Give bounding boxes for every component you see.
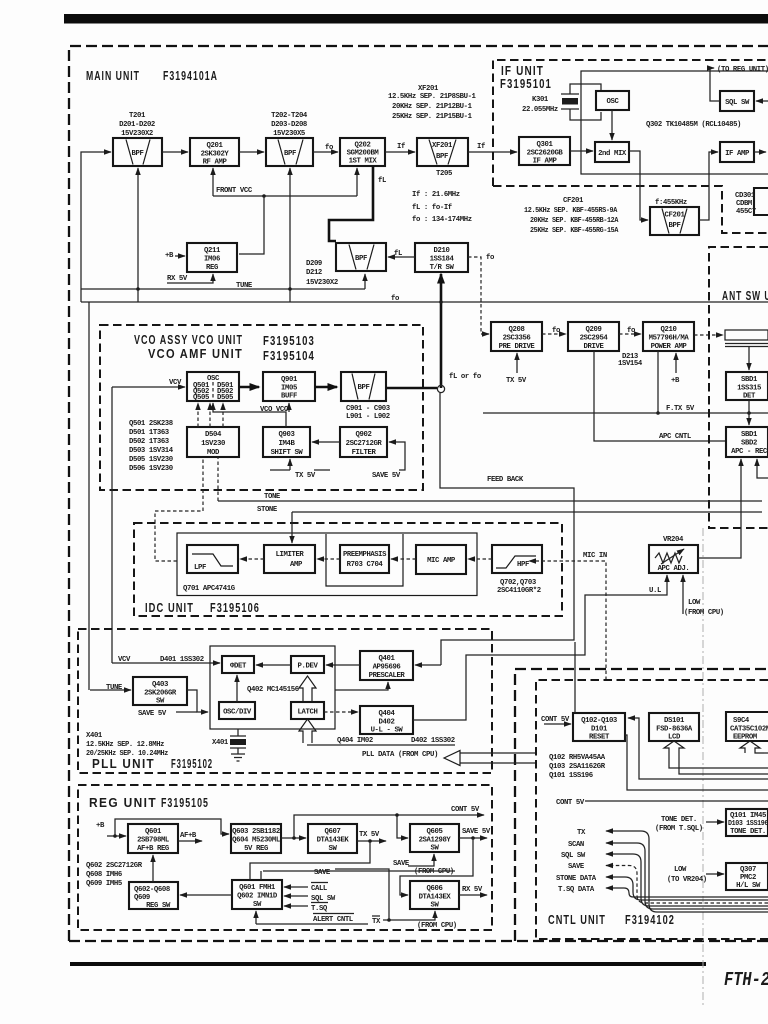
svg-text:25KHz SEP. 21P15BU-1: 25KHz SEP. 21P15BU-1 [392, 113, 473, 121]
svg-text:SAVE: SAVE [393, 860, 410, 868]
LCD DS101 [649, 713, 699, 742]
svg-text:TONE DET.: TONE DET. [730, 828, 766, 836]
crystal K301 [561, 84, 601, 120]
svg-text:FRONT VCC: FRONT VCC [216, 187, 253, 195]
svg-text:BPF: BPF [132, 150, 144, 158]
amplifier IF AMP [720, 142, 754, 162]
modulator D504 [187, 427, 239, 457]
wire VCO node into prescaler [415, 664, 441, 666]
switch REG SW [129, 882, 178, 910]
svg-text:IF AMP: IF AMP [533, 158, 558, 166]
wire CONT 5V rail [294, 815, 484, 838]
svg-text:SW: SW [431, 845, 440, 853]
switch D210 T/R SW [415, 243, 468, 272]
svg-text:2SC2954: 2SC2954 [580, 335, 609, 343]
wire REG SW to Q601 [152, 855, 154, 882]
svg-text:LIMITER: LIMITER [276, 551, 305, 559]
svg-text:If : 21.6MHz: If : 21.6MHz [412, 191, 460, 199]
svg-text:D103 1SS196: D103 1SS196 [728, 820, 768, 828]
svg-text:SW: SW [431, 902, 440, 910]
node VCO output junction circle [437, 385, 444, 392]
regulator Q601 [128, 824, 178, 853]
svg-text:T205: T205 [436, 170, 452, 178]
svg-text:1ST MIX: 1ST MIX [349, 158, 378, 166]
svg-text:LOW: LOW [674, 866, 687, 874]
wire OSC to 2nd MIX [611, 110, 613, 140]
wire TUNE to D209 BPF varactors [364, 274, 366, 289]
svg-text:Q903: Q903 [279, 431, 296, 439]
fold crease dash-dot line [702, 528, 704, 1008]
svg-text:Q102 RH5VA45AA: Q102 RH5VA45AA [549, 754, 606, 762]
wire LATCH to U-L SW dashed [324, 711, 358, 713]
wire Q208 to Q209 dashed, node fo [542, 333, 566, 335]
wire CONT5V to Q605 [397, 815, 408, 838]
amplifier Q210 POWER AMP [643, 322, 694, 351]
svg-text:IM05: IM05 [281, 385, 297, 393]
wire LPF audio out to MOD dashed [155, 511, 203, 561]
svg-text:BPF: BPF [436, 153, 448, 161]
svg-text:If: If [477, 143, 485, 151]
svg-text:SGM200BM: SGM200BM [347, 150, 380, 158]
svg-text:Q701 APC4741G: Q701 APC4741G [183, 585, 236, 593]
svg-text:Q403: Q403 [152, 681, 169, 689]
svg-text:2SC2712GR: 2SC2712GR [346, 440, 383, 448]
svg-text:TX 5V: TX 5V [506, 377, 527, 385]
svg-text:D402 1SS302: D402 1SS302 [411, 737, 455, 745]
wire HPF to MIC AMP dashed [468, 558, 492, 560]
svg-text:Q603 2SB1182: Q603 2SB1182 [232, 828, 280, 836]
wire TX5V down into SW [250, 841, 370, 880]
svg-text:22.055MHz: 22.055MHz [522, 106, 558, 114]
wire TX-bar to SW box [335, 869, 389, 920]
wire VR204 output [698, 459, 741, 558]
detector SBD1 DET [726, 372, 768, 401]
svg-text:OSC: OSC [607, 98, 620, 106]
svg-text:2SB798ML: 2SB798ML [137, 837, 169, 845]
svg-text:15V230X5: 15V230X5 [273, 130, 305, 138]
svg-text:Q302 TK10485M (RCL10485): Q302 TK10485M (RCL10485) [646, 121, 741, 129]
wire LCD data bus [669, 757, 768, 768]
svg-text:1SS184: 1SS184 [430, 256, 455, 264]
svg-text:ΦDET: ΦDET [230, 663, 247, 671]
svg-text:RX 5V: RX 5V [167, 275, 188, 283]
svg-text:TX 5V: TX 5V [359, 831, 380, 839]
svg-text:T.SQ: T.SQ [311, 905, 328, 913]
amplifier Q209 DRIVE [568, 322, 619, 351]
IC U Q302 TK10485M outline [581, 71, 768, 174]
svg-text:fL or fo: fL or fo [449, 373, 482, 381]
svg-text:PLL UNIT: PLL UNIT [92, 756, 155, 771]
svg-text:X401: X401 [86, 732, 103, 740]
svg-text:1SV230: 1SV230 [201, 440, 225, 448]
svg-text:D210: D210 [434, 247, 450, 255]
REG unit dashed border [78, 785, 492, 930]
svg-text:T201: T201 [129, 112, 146, 120]
svg-text:2nd MIX: 2nd MIX [598, 150, 627, 158]
wire Q201 to BPF T202 [239, 151, 264, 153]
svg-text:AP95696: AP95696 [373, 664, 401, 672]
wire VCV riser down to PLL [111, 387, 113, 663]
svg-text:5V REG: 5V REG [244, 845, 269, 853]
svg-text:If: If [397, 143, 405, 151]
VCO unit dashed border [100, 325, 423, 490]
wire preemphasis to limiter dashed [317, 558, 340, 560]
svg-text:STONE: STONE [257, 506, 278, 514]
svg-text:SBD2: SBD2 [741, 440, 757, 448]
svg-text:OSC/DIV: OSC/DIV [223, 709, 252, 717]
svg-text:SBD1: SBD1 [741, 431, 758, 439]
prescaler Q401 [360, 651, 413, 680]
svg-text:LCD: LCD [668, 734, 681, 742]
svg-text:VR204: VR204 [663, 536, 684, 544]
svg-text:VCO VCC: VCO VCC [260, 406, 289, 414]
wire XF201 to IF unit Q301 [468, 151, 517, 153]
svg-text:fo: fo [391, 295, 400, 303]
svg-text:f:455KHz: f:455KHz [655, 199, 687, 207]
wire SW to REG SW [180, 894, 232, 896]
svg-text:K301: K301 [532, 96, 549, 104]
svg-text:TONE: TONE [264, 493, 281, 501]
wire VCO BPF to output node thick [386, 387, 437, 390]
svg-text:Q901: Q901 [281, 376, 298, 384]
potentiometer VR204 [649, 545, 698, 573]
svg-text:PMC2: PMC2 [740, 874, 756, 882]
wire BUFF to BPF thick [315, 386, 337, 389]
IF UNIT dashed border [493, 60, 768, 186]
svg-text:2SA1298Y: 2SA1298Y [419, 837, 452, 845]
reset circuit Q102 Q103 D101 [573, 713, 625, 742]
svg-text:15V230X2: 15V230X2 [121, 130, 153, 138]
wire fo RX line across page [81, 301, 768, 303]
wire Q202 to XF201, node If [385, 151, 415, 153]
bottom rule [70, 962, 706, 966]
tone detector Q101 D103 [726, 809, 768, 836]
svg-text:MIC IN: MIC IN [583, 552, 607, 560]
svg-text:CF201: CF201 [563, 197, 584, 205]
svg-text:Q211: Q211 [204, 247, 221, 255]
wire TUNE rail [81, 288, 365, 290]
svg-text:Q401: Q401 [379, 655, 396, 663]
svg-text:XF201: XF201 [418, 85, 439, 93]
svg-text:20KHz SEP. KBF-455RB-12A: 20KHz SEP. KBF-455RB-12A [530, 217, 619, 225]
svg-text:H/L SW: H/L SW [736, 882, 761, 890]
svg-text:APC - REC: APC - REC [731, 448, 768, 456]
hollow arrow PLL DATA into LATCH [299, 719, 316, 743]
svg-text:D504: D504 [205, 431, 222, 439]
svg-text:IM06: IM06 [204, 256, 220, 264]
switch SQL SW [720, 91, 754, 111]
svg-text:PRESCALER: PRESCALER [369, 672, 406, 680]
svg-text:LOW: LOW [688, 599, 701, 607]
svg-text:Q208: Q208 [509, 326, 525, 334]
svg-text:D101: D101 [591, 726, 608, 734]
svg-text:Q209: Q209 [586, 326, 602, 334]
switch Q606 [410, 881, 459, 910]
node LOW FROM CPU into VR204 [682, 575, 684, 614]
svg-text:FEED BACK: FEED BACK [487, 476, 524, 484]
svg-text:STONE DATA: STONE DATA [556, 875, 597, 883]
svg-text:ALERT CNTL: ALERT CNTL [313, 916, 353, 924]
svg-text:Q101 1SS196: Q101 1SS196 [549, 772, 593, 780]
svg-text:RX 5V: RX 5V [462, 886, 483, 894]
wire APC control riser from Q209 [594, 351, 725, 441]
amplifier Q301 [519, 137, 570, 166]
oscillator divider OSC/DIV [219, 702, 255, 719]
svg-text:Q210: Q210 [661, 326, 677, 334]
svg-text:FTH-2: FTH-2 [724, 969, 768, 991]
svg-text:D505 1SV230: D505 1SV230 [129, 456, 173, 464]
svg-text:IF AMP: IF AMP [725, 150, 750, 158]
svg-text:MOD: MOD [207, 449, 220, 457]
switch Q607 [308, 824, 357, 853]
wire prescaler to P.DEV [326, 664, 360, 666]
svg-text:VCO ASSY VCO UNIT: VCO ASSY VCO UNIT [134, 332, 243, 347]
svg-text:SCAN: SCAN [568, 841, 584, 849]
svg-text:AF+B REG: AF+B REG [137, 845, 170, 853]
svg-text:SW: SW [253, 901, 262, 909]
wire D504 audio input dashed [202, 457, 204, 511]
svg-text:D201-D202: D201-D202 [119, 121, 155, 129]
svg-text:M57796H/MA: M57796H/MA [649, 335, 690, 343]
latch LATCH [291, 702, 324, 719]
svg-text:Q609: Q609 [134, 894, 150, 902]
svg-text:D502 1T363: D502 1T363 [129, 438, 170, 446]
svg-text:VCO AMF UNIT: VCO AMF UNIT [148, 346, 243, 361]
wire PLL DATA from CPU [307, 744, 455, 746]
svg-text:25KHz SEP. KBF-455RG-15A: 25KHz SEP. KBF-455RG-15A [530, 227, 619, 235]
svg-text:ANT SW UNIT: ANT SW UNIT [722, 288, 768, 303]
svg-text:Q602 IMN1D: Q602 IMN1D [237, 893, 278, 901]
svg-text:fo: fo [552, 327, 561, 335]
svg-text:POWER AMP: POWER AMP [651, 343, 688, 351]
wire T/R SW to BPF D209, node fL [388, 256, 415, 258]
svg-text:Q601 FMH1: Q601 FMH1 [239, 884, 276, 892]
wire D504 to OSC dashed arrows [197, 403, 199, 427]
svg-text:SAVE: SAVE [314, 869, 331, 877]
ceramic filter CF201 [650, 207, 699, 235]
svg-text:SW: SW [156, 698, 165, 706]
wire FRONT VCC rail with arrows into Q201 and Q202 [212, 168, 214, 196]
hollow arrow into EEPROM [740, 741, 764, 753]
bandpass filter D209 D212 [336, 243, 386, 271]
svg-text:SAVE 5V: SAVE 5V [138, 710, 167, 718]
bandpass filter C901-C903 [341, 372, 386, 401]
wire OSC to BUFF thick [239, 386, 259, 389]
detector SBD1 SBD2 APC [726, 427, 768, 457]
wire APC box bottom feed from right [757, 459, 768, 478]
svg-text:R703 C704: R703 C704 [347, 561, 384, 569]
svg-text:Q202: Q202 [355, 142, 371, 150]
svg-text:REG SW: REG SW [146, 902, 171, 910]
svg-text:F3194101A: F3194101A [163, 68, 218, 83]
svg-text:SQL SW: SQL SW [561, 852, 586, 860]
svg-text:(TO VR204): (TO VR204) [667, 876, 707, 884]
svg-text:15V230X2: 15V230X2 [306, 279, 338, 287]
svg-text:RESET: RESET [589, 734, 610, 742]
switch Q605 [410, 824, 459, 853]
svg-text:D203-D208: D203-D208 [271, 121, 307, 129]
svg-text:SAVE: SAVE [568, 863, 585, 871]
svg-text:D505: D505 [217, 394, 233, 402]
svg-text:Q702,Q703: Q702,Q703 [500, 579, 537, 587]
svg-text:PLL DATA (FROM CPU): PLL DATA (FROM CPU) [362, 751, 438, 759]
svg-text:LATCH: LATCH [298, 709, 318, 717]
svg-text:fL : fo-If: fL : fo-If [412, 204, 452, 212]
hollow arrow into LCD [664, 741, 684, 757]
IC Q402 MC145156 outline [210, 646, 335, 729]
svg-text:F.TX 5V: F.TX 5V [666, 405, 695, 413]
wire P.DEV to PDET [256, 664, 291, 666]
svg-text:F3195106: F3195106 [210, 600, 260, 615]
svg-text:Q404: Q404 [379, 710, 396, 718]
svg-text:XF201: XF201 [432, 142, 453, 150]
svg-text:F3195101: F3195101 [500, 76, 552, 91]
svg-text:Q606: Q606 [427, 885, 443, 893]
svg-text:+B: +B [671, 377, 680, 385]
ANT SW UNIT dashed border [709, 247, 768, 528]
svg-text:Q103 2SA1162GR: Q103 2SA1162GR [549, 763, 606, 771]
svg-text:F3195105: F3195105 [161, 795, 209, 810]
wire coupler to SBD1 DET [748, 347, 750, 370]
svg-text:PRE DRIVE: PRE DRIVE [499, 343, 536, 351]
svg-text:Q607: Q607 [325, 828, 341, 836]
svg-text:12.5KHz SEP. 21P8SBU-1: 12.5KHz SEP. 21P8SBU-1 [388, 93, 477, 101]
wire Q301 to 2nd MIX [570, 150, 593, 152]
svg-text:(TO REG UNIT): (TO REG UNIT) [717, 66, 768, 74]
svg-text:CONT 5V: CONT 5V [451, 806, 480, 814]
svg-text:F3194102: F3194102 [625, 912, 675, 927]
wire TUNE riser down to PLL unit [88, 302, 90, 690]
wire 2nd MIX to CF201 [629, 151, 648, 220]
svg-text:SQL SW: SQL SW [725, 99, 750, 107]
svg-text:455C7: 455C7 [736, 208, 756, 216]
svg-text:F3195102: F3195102 [171, 756, 213, 771]
svg-text:AMP: AMP [290, 561, 303, 569]
wire RX input riser to BPF T201 [81, 152, 111, 302]
svg-text:MAIN UNIT: MAIN UNIT [86, 68, 140, 83]
svg-text:2SK302Y: 2SK302Y [201, 151, 230, 159]
svg-text:fo : 134-174MHz: fo : 134-174MHz [412, 216, 472, 224]
svg-text:2SC3356: 2SC3356 [503, 335, 531, 343]
svg-text:SAVE 5V: SAVE 5V [462, 828, 491, 836]
phase deviation P.DEV [291, 656, 324, 673]
svg-text:Q601: Q601 [145, 828, 162, 836]
amplifier Q208 PRE DRIVE [491, 322, 542, 351]
wire BPF T202 to Q202, node fo [313, 151, 338, 153]
svg-text:Q402 MC145156: Q402 MC145156 [247, 686, 299, 694]
svg-text:FSD-8636A: FSD-8636A [656, 726, 693, 734]
svg-text:TUNE: TUNE [106, 684, 123, 692]
svg-text:SW: SW [329, 845, 338, 853]
svg-text:BUFF: BUFF [281, 393, 297, 401]
svg-text:12.5KHz SEP. KBF-455RS-9A: 12.5KHz SEP. KBF-455RS-9A [524, 207, 618, 215]
svg-text:T.SQ DATA: T.SQ DATA [558, 886, 595, 894]
svg-text:fo: fo [325, 144, 334, 152]
switch Q307 H/L SW [726, 863, 768, 890]
svg-text:2SC2620GB: 2SC2620GB [527, 150, 564, 158]
svg-text:fo: fo [486, 254, 495, 262]
svg-text:(FROM CPU): (FROM CPU) [417, 922, 457, 930]
regulator Q211 [187, 243, 237, 272]
svg-text:(FROM CPU): (FROM CPU) [414, 868, 454, 876]
svg-text:CAT35C102N: CAT35C102N [730, 726, 768, 734]
svg-text:IM4B: IM4B [279, 440, 296, 448]
CNTL unit dashed border [536, 680, 768, 939]
coupler antenna line [725, 330, 768, 347]
svg-text:+B: +B [96, 822, 105, 830]
svg-text:Q404 IM02: Q404 IM02 [337, 737, 373, 745]
svg-text:1SV154: 1SV154 [618, 360, 643, 368]
PLL unit dashed border [78, 629, 492, 773]
oscillator OSC (IF local) [596, 91, 629, 110]
filter Q902 [340, 427, 387, 457]
svg-text:TONE DET.: TONE DET. [661, 816, 697, 824]
svg-text:EEPROM: EEPROM [733, 734, 758, 742]
svg-text:D209: D209 [306, 260, 322, 268]
svg-text:TX 5V: TX 5V [295, 472, 316, 480]
svg-text:C901 - C903: C901 - C903 [346, 405, 391, 413]
svg-text:Q501 2SK238: Q501 2SK238 [129, 420, 173, 428]
crystal filter XF201 [417, 138, 468, 166]
svg-text:TX: TX [372, 918, 381, 926]
svg-text:+B: +B [165, 252, 174, 260]
svg-text:Q101 IM45: Q101 IM45 [730, 812, 766, 820]
svg-text:1SS315: 1SS315 [737, 385, 761, 393]
svg-text:fL: fL [378, 177, 386, 185]
svg-text:U.L: U.L [649, 587, 661, 595]
hollow arrow LATCH to P.DEV [299, 676, 316, 702]
regulator Q603 Q604 [231, 824, 281, 853]
svg-text:D506 1SV230: D506 1SV230 [129, 465, 173, 473]
wire Q603 to Q607 [281, 837, 306, 839]
svg-text:D212: D212 [306, 269, 322, 277]
svg-text:SAVE 5V: SAVE 5V [372, 472, 401, 480]
svg-text:CD301: CD301 [735, 192, 756, 200]
svg-text:TX: TX [577, 829, 586, 837]
outer RF-board dashed border [69, 46, 768, 941]
svg-text:CDBM: CDBM [736, 200, 753, 208]
svg-text:(FROM T.SQL): (FROM T.SQL) [655, 825, 703, 833]
svg-text:D501 1T363: D501 1T363 [129, 429, 170, 437]
svg-text:Q602 2SC2712GR: Q602 2SC2712GR [86, 862, 143, 870]
svg-text:DET: DET [743, 393, 756, 401]
svg-text:DTA143EK: DTA143EK [317, 837, 350, 845]
svg-text:U-L - SW: U-L - SW [371, 727, 404, 735]
svg-text:Q602-Q608: Q602-Q608 [134, 886, 170, 894]
svg-text:fL: fL [394, 250, 402, 258]
svg-text:Q201: Q201 [207, 142, 224, 150]
IDC inner box [177, 533, 477, 596]
switch Q601 FMH1 SW [232, 880, 282, 909]
svg-text:RF AMP: RF AMP [203, 159, 228, 167]
svg-text:P.DEV: P.DEV [298, 663, 319, 671]
svg-text:T/R SW: T/R SW [430, 264, 455, 272]
svg-text:L901 - L902: L901 - L902 [346, 413, 390, 421]
wire TUNE to T202 varactors [289, 168, 291, 302]
wire F.TX 5V riser from Q210 [657, 351, 659, 413]
mixer 2nd MIX [595, 142, 629, 162]
crystal X401 [230, 729, 246, 761]
svg-text:REG: REG [206, 264, 219, 272]
wire PLL IC to prescaler bottom [335, 682, 388, 690]
svg-text:AF+B: AF+B [180, 832, 197, 840]
discriminator CD301 [735, 188, 768, 216]
svg-text:X401: X401 [212, 739, 229, 747]
svg-text:SHIFT SW: SHIFT SW [271, 449, 304, 457]
wire into SQL SW from right [756, 100, 768, 102]
svg-text:Q608 IMH6: Q608 IMH6 [86, 871, 122, 879]
svg-text:VCV: VCV [169, 379, 182, 387]
